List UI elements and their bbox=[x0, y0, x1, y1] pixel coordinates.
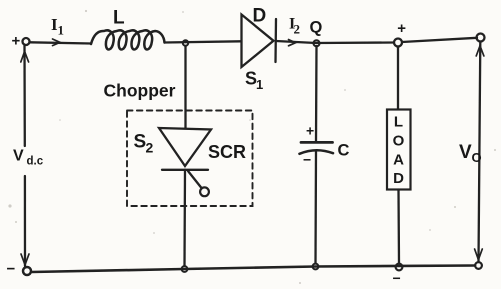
SCR S2 thyristor bbox=[159, 128, 211, 166]
capacitor C bottom plate curved bbox=[300, 150, 334, 154]
svg-text:1: 1 bbox=[256, 77, 263, 92]
dashed box chopper bbox=[127, 111, 253, 207]
inductor L bbox=[91, 30, 165, 49]
svg-text:SCR: SCR bbox=[208, 142, 246, 162]
node bottom under SCR bbox=[182, 266, 188, 272]
wire capacitor branch upper bbox=[315, 46, 318, 141]
node + junction above load bbox=[394, 39, 402, 47]
svg-text:−: − bbox=[303, 152, 311, 168]
svg-text:L: L bbox=[113, 8, 125, 29]
wire junction to top-right node bbox=[402, 38, 477, 42]
wire capacitor branch lower bbox=[314, 151, 317, 264]
load box bbox=[387, 110, 411, 190]
svg-text:Chopper: Chopper bbox=[104, 81, 176, 101]
svg-text:Q: Q bbox=[310, 18, 323, 36]
svg-text:+: + bbox=[306, 122, 314, 138]
svg-text:V: V bbox=[459, 142, 472, 163]
SCR cathode bar bbox=[162, 169, 208, 171]
svg-text:S: S bbox=[134, 132, 147, 153]
node bottom-left bbox=[23, 267, 31, 275]
svg-text:1: 1 bbox=[58, 23, 65, 38]
svg-text:L: L bbox=[394, 114, 403, 131]
wire diode to Q to + junction bbox=[276, 41, 394, 43]
wire load branch lower bbox=[397, 190, 400, 264]
svg-text:−: − bbox=[7, 261, 16, 278]
wire bottom rail bbox=[32, 266, 476, 273]
svg-text:C: C bbox=[338, 141, 350, 159]
wire arrow I2 bbox=[289, 40, 296, 46]
svg-text:2: 2 bbox=[294, 22, 301, 37]
svg-text:V: V bbox=[13, 148, 24, 165]
svg-text:D: D bbox=[393, 170, 404, 187]
node bottom under load bbox=[396, 264, 403, 271]
svg-text:−: − bbox=[393, 270, 401, 286]
node bottom under capacitor bbox=[313, 264, 319, 270]
diode cathode bar bbox=[274, 19, 277, 62]
svg-text:A: A bbox=[393, 152, 404, 169]
wire left vertical Vdc upper bbox=[23, 45, 26, 146]
wire left vertical Vdc lower bbox=[24, 176, 26, 266]
svg-text:O: O bbox=[472, 150, 482, 165]
wire load branch upper bbox=[397, 47, 399, 110]
svg-text:+: + bbox=[397, 20, 406, 37]
node junction chopper top bbox=[183, 40, 188, 45]
arrow down Vo bbox=[475, 249, 483, 260]
wire inductor to diode bbox=[165, 41, 242, 42]
SCR gate terminal circle bbox=[200, 187, 209, 196]
node bottom-right bbox=[475, 262, 482, 269]
wire top-left from + node to inductor bbox=[30, 42, 91, 43]
svg-text:+: + bbox=[12, 33, 21, 50]
capacitor C top plate bbox=[301, 141, 333, 144]
wire chopper branch upper bbox=[184, 46, 186, 128]
wire chopper branch lower bbox=[183, 170, 186, 266]
diode D bbox=[242, 15, 274, 68]
svg-text:2: 2 bbox=[146, 140, 154, 156]
wire arrow I1 bbox=[53, 39, 61, 46]
svg-text:d.c: d.c bbox=[27, 156, 44, 168]
node + terminal top-left bbox=[23, 38, 30, 45]
node top-right bbox=[477, 34, 485, 42]
wire right vertical Vo bbox=[479, 42, 481, 263]
node Q bbox=[314, 40, 320, 46]
svg-text:O: O bbox=[393, 133, 405, 150]
arrow up Vdc bbox=[21, 52, 29, 63]
SCR gate lead bbox=[188, 171, 202, 188]
arrow down Vdc bbox=[21, 254, 29, 265]
svg-text:D: D bbox=[253, 6, 267, 27]
arrow up Vo bbox=[476, 46, 484, 56]
